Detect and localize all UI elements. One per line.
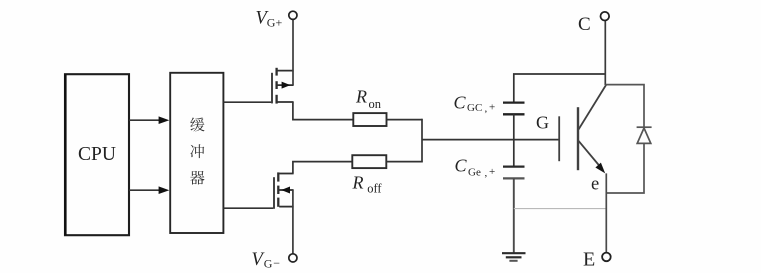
label C_Ge	[455, 156, 496, 179]
svg-text:off: off	[367, 182, 382, 196]
svg-text:,: ,	[485, 167, 488, 179]
wire Q2 drain to R_off	[293, 162, 352, 174]
capacitor C_GC	[503, 103, 525, 115]
svg-text:C: C	[578, 14, 591, 35]
wire buffer output to Q1 gate	[223, 101, 271, 103]
junction vertical wire (R_on/R_off tie)	[421, 119, 423, 163]
ground	[502, 253, 526, 261]
svg-text:G: G	[536, 112, 549, 132]
wire CPU to buffer, arrow 1	[129, 116, 169, 124]
terminal V_G+	[289, 11, 297, 19]
transistor Q1 (PMOS, high-side)	[272, 68, 294, 104]
wire collector to C_GC (top link)	[514, 74, 606, 102]
resistor R_on	[353, 113, 386, 126]
label R_off	[352, 172, 383, 195]
svg-text:+: +	[489, 166, 495, 178]
wire IGBT collector to C terminal	[604, 21, 606, 85]
svg-text:CPU: CPU	[78, 144, 116, 165]
wire CPU to buffer, arrow 2	[129, 186, 169, 194]
terminal V_G-	[289, 254, 297, 262]
terminal E	[602, 253, 611, 262]
wire Q2 source to V_G- terminal	[292, 190, 294, 254]
label V_G+	[256, 9, 283, 30]
svg-text:C: C	[454, 93, 467, 113]
wire C_Ge to ground	[513, 178, 515, 253]
svg-text:C: C	[455, 156, 468, 176]
wire junction to IGBT gate node G	[422, 139, 560, 141]
svg-text:G: G	[264, 256, 273, 270]
terminal C	[601, 12, 610, 21]
svg-text:GC: GC	[467, 102, 482, 114]
wire emitter to E terminal	[605, 173, 607, 252]
svg-text:on: on	[369, 97, 382, 111]
label R_on	[355, 87, 382, 111]
buffer block (缓冲器)	[170, 73, 223, 233]
svg-text:Ge: Ge	[468, 166, 481, 178]
wire R_off to junction	[386, 161, 422, 163]
diode D1 (freewheeling)	[605, 85, 651, 193]
wire buffer output to Q2 gate	[223, 207, 273, 209]
IGBT U1	[559, 85, 606, 173]
svg-text:+: +	[489, 102, 495, 114]
label C_GC	[454, 93, 496, 115]
svg-text:R: R	[352, 172, 364, 192]
svg-text:E: E	[583, 249, 595, 271]
svg-text:R: R	[355, 87, 367, 107]
wire Q1 to V_G+ terminal	[292, 20, 294, 86]
transistor Q2 (NMOS, low-side)	[274, 172, 294, 208]
resistor R_off	[352, 155, 386, 168]
svg-text:−: −	[273, 256, 280, 270]
svg-text:e: e	[591, 174, 599, 194]
wire Q1 source to R_on	[293, 102, 353, 120]
capacitor C_Ge	[503, 167, 525, 179]
wire R_on to junction	[387, 119, 423, 121]
label V_G-	[252, 250, 281, 270]
svg-text:,: ,	[485, 102, 488, 114]
CPU block U0	[64, 74, 129, 235]
wire ground rail to emitter (faint)	[514, 208, 606, 210]
svg-text:G+: G+	[267, 15, 283, 29]
